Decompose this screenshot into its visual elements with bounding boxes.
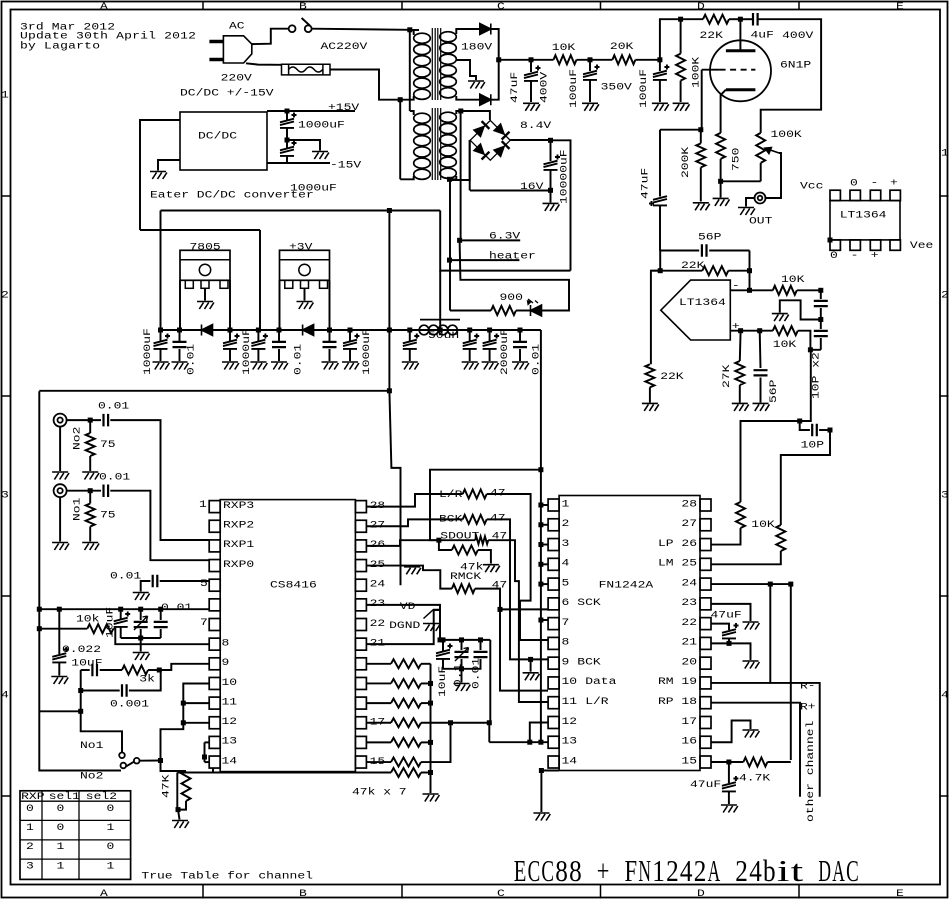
wire HT rail segment 1 xyxy=(499,59,554,61)
wire 75 No1 top xyxy=(89,491,91,504)
svg-text:21: 21 xyxy=(681,636,697,648)
ground 47K xyxy=(172,821,189,829)
label 10K fn xyxy=(751,518,775,530)
CS8416 pin9 number xyxy=(222,656,230,668)
FN1242A pin 2 stub xyxy=(548,519,559,531)
FN1242A pin 11 stub xyxy=(548,697,559,709)
border row label 1 right xyxy=(941,146,949,158)
junction minus input xyxy=(747,288,752,293)
wire FN pin24 xyxy=(711,583,791,585)
wire x389 to pin24 xyxy=(389,391,400,585)
wire y212 horizontal xyxy=(161,210,441,212)
wire trio gnd lead xyxy=(140,638,142,652)
resistor 22K feedback xyxy=(702,266,728,275)
svg-text:0.01: 0.01 xyxy=(98,399,129,411)
svg-text:4uF: 4uF xyxy=(751,29,774,41)
border row label 4 left xyxy=(1,688,9,700)
ground 0.01 a xyxy=(172,362,189,370)
svg-text:12: 12 xyxy=(222,715,238,727)
FN1242A pin4 number xyxy=(562,557,570,569)
svg-text:100K: 100K xyxy=(690,56,702,88)
capacitor 0.01 VD xyxy=(474,652,488,657)
svg-text:-15V: -15V xyxy=(330,158,361,170)
svg-text:F: F xyxy=(625,853,638,888)
junction plus 27K xyxy=(738,328,743,333)
ground FN pin21 xyxy=(743,661,760,669)
svg-text:9: 9 xyxy=(222,656,230,668)
svg-text:24: 24 xyxy=(681,577,697,589)
title date line 1 xyxy=(20,20,115,32)
label 1000uF c xyxy=(360,328,372,375)
junction FN p13 bus xyxy=(538,740,543,745)
svg-text:11: 11 xyxy=(562,695,578,707)
wire CS8416 bottom bus xyxy=(177,772,391,774)
wire no1 node left xyxy=(39,710,80,712)
wire x160 drop xyxy=(160,211,162,331)
ground jack No2 xyxy=(52,472,69,480)
junction FN bus pin4 xyxy=(538,562,543,567)
label 0.01 No2 xyxy=(98,399,129,411)
wire 10P right down xyxy=(781,430,830,525)
truth table box xyxy=(20,791,131,880)
wire fb node to minus input xyxy=(749,251,751,291)
border column label A bottom xyxy=(100,887,109,899)
svg-text:750: 750 xyxy=(730,148,742,171)
junction bus 5 xyxy=(327,328,332,333)
label 10uF VD xyxy=(436,666,448,697)
svg-text:23: 23 xyxy=(370,597,386,609)
svg-text:2: 2 xyxy=(735,853,748,888)
junction bus 8 xyxy=(407,328,412,333)
wire fb left corner down xyxy=(651,271,660,365)
CS8416 pin 20 stub xyxy=(355,658,366,670)
junction fuse-primary xyxy=(398,97,403,102)
FN1242A pin 19 stub xyxy=(700,677,711,689)
label 75 No1 xyxy=(100,508,116,520)
wire 47k row top entry xyxy=(421,663,431,665)
T1 top-left pin xyxy=(410,29,419,31)
label heater xyxy=(489,250,536,262)
truth table header sel1 xyxy=(49,790,80,802)
wire R- row xyxy=(711,683,820,797)
junction HT node2 xyxy=(588,57,593,62)
FN1242A pin10 number xyxy=(562,675,578,687)
border column label E bottom xyxy=(896,887,904,899)
capacitor 0.01 trio xyxy=(154,622,168,627)
diode bus left xyxy=(202,325,213,336)
wire 6.3V to 900 box xyxy=(460,240,569,310)
svg-text:2000uF: 2000uF xyxy=(498,328,510,375)
wire 47uF fn lower lead xyxy=(728,639,730,644)
junction bus corner xyxy=(538,467,543,472)
label 10P x2 xyxy=(810,352,822,399)
wire 1000uF a bottom lead xyxy=(160,349,162,361)
wire 1000uF b top lead xyxy=(229,330,231,341)
svg-text:47: 47 xyxy=(490,486,506,498)
svg-text:B: B xyxy=(299,0,307,12)
wire switch to pins riser xyxy=(161,684,210,761)
label 8.4V xyxy=(520,119,551,131)
wire x2 node down xyxy=(800,350,811,421)
CS8416 pin 14 stub xyxy=(209,756,220,768)
capacitor 4uF 400V xyxy=(753,13,758,26)
wire 22K fb left xyxy=(651,270,702,272)
label 47uF fn upper xyxy=(711,609,742,621)
CS8416 label RXP2 xyxy=(223,519,254,531)
diode D2 180V bottom xyxy=(480,94,491,105)
capacitor 10P x2 lower xyxy=(814,331,828,336)
svg-text:4: 4 xyxy=(562,557,570,569)
label R+ xyxy=(800,700,816,712)
resistor 10k xyxy=(87,624,113,633)
svg-text:10k: 10k xyxy=(76,612,99,624)
LED indicator xyxy=(531,305,542,316)
ground FN pin23 xyxy=(743,622,760,630)
border row label 2 left xyxy=(1,288,9,300)
svg-text:2: 2 xyxy=(562,517,570,529)
wire pin11 xyxy=(183,702,209,704)
FN1242A pin23 number xyxy=(681,596,697,608)
junction no1 node xyxy=(78,709,83,714)
svg-text:0: 0 xyxy=(57,821,65,833)
border column label B top xyxy=(299,0,307,12)
label L/R row xyxy=(439,488,462,500)
capacitor trimmer trio xyxy=(134,622,148,627)
CS8416 pin25 number xyxy=(370,558,386,570)
svg-text:L/R: L/R xyxy=(585,695,608,707)
wire mid to ground xyxy=(287,140,320,151)
T1 secondary bottom lead xyxy=(456,96,480,100)
ground 47uF fn lower xyxy=(721,805,738,813)
wire 10uF-b top xyxy=(58,609,60,654)
CS8416 pin22 number xyxy=(370,617,386,629)
svg-text:RXP: RXP xyxy=(21,790,44,802)
wire FN pin4 xyxy=(541,563,548,565)
junction 6.3V xyxy=(457,238,462,243)
svg-text:Data: Data xyxy=(585,675,616,687)
wire 47k bus xyxy=(430,664,432,793)
FN1242A pin 16 stub xyxy=(700,736,711,748)
wire trio2 bot xyxy=(140,629,142,638)
wire +15V rail xyxy=(267,110,355,112)
wire 0.01 c bottom lead xyxy=(519,349,521,361)
FN1242A pin 12 stub xyxy=(548,716,559,728)
svg-text:400V: 400V xyxy=(782,29,813,41)
wire pin6 entry xyxy=(500,608,548,610)
capacitor 100uF-2 bottom lead xyxy=(659,80,661,102)
ground 2000uF xyxy=(462,362,479,370)
border column label D top xyxy=(697,0,705,12)
label 10uF input xyxy=(71,656,102,668)
wire 0.022-0.001 left xyxy=(80,670,82,711)
potentiometer 100K xyxy=(756,133,765,163)
wire 0.022 left xyxy=(81,669,90,671)
wire 47uF lo top xyxy=(728,762,730,783)
junction bus 1 xyxy=(177,328,182,333)
wire 47k row2 left xyxy=(367,702,392,704)
label 56P feedback xyxy=(698,230,721,242)
junction bus 2 xyxy=(228,328,233,333)
svg-text:Vcc: Vcc xyxy=(800,179,823,191)
label 75 No2 xyxy=(100,438,116,450)
ground 1000uF c xyxy=(342,362,359,370)
label 180V xyxy=(461,40,492,52)
capacitor 10P xyxy=(812,424,817,437)
svg-text:AC220V: AC220V xyxy=(321,40,368,52)
junction 47k row7 xyxy=(428,770,433,775)
capacitor 47uF top lead xyxy=(530,60,532,72)
wire 2000uF b top lead xyxy=(489,330,491,341)
wire cathode node to pot xyxy=(721,180,761,182)
FN1242A pin 27 stub xyxy=(700,519,711,531)
wire VD bus xyxy=(440,639,490,641)
wire No1 to RXP0 xyxy=(110,491,209,561)
label 0.01 a xyxy=(185,344,197,375)
svg-text:other channel: other channel xyxy=(804,721,816,822)
FN1242A pin 22 stub xyxy=(700,618,711,630)
svg-text:D: D xyxy=(697,887,705,899)
svg-text:1: 1 xyxy=(1,88,9,100)
FN1242A pin 15 stub xyxy=(700,756,711,768)
svg-text:t: t xyxy=(791,853,804,888)
bridge diode bottom-left xyxy=(474,144,490,160)
FN1242A pin 23 stub xyxy=(700,598,711,610)
svg-text:16: 16 xyxy=(681,735,697,747)
tube grid lead xyxy=(702,69,720,71)
svg-text:CS8416: CS8416 xyxy=(270,579,317,591)
capacitor 100uF 350V xyxy=(583,65,600,80)
svg-text:0: 0 xyxy=(57,802,65,814)
svg-text:900: 900 xyxy=(500,291,523,303)
ground jack No1 xyxy=(52,543,69,551)
svg-text:R-: R- xyxy=(800,679,816,691)
wire input loop left xyxy=(39,391,121,770)
label 400V top xyxy=(782,29,813,41)
svg-text:47uF: 47uF xyxy=(639,168,651,199)
resistor 10K lm xyxy=(776,525,785,551)
wire wiper to jack xyxy=(766,153,782,198)
svg-text:1000uF: 1000uF xyxy=(360,328,372,375)
label 100K pot xyxy=(771,128,803,140)
FN1242A pin 3 stub xyxy=(548,539,559,551)
svg-text:27K: 27K xyxy=(720,364,732,388)
jack OUT inner xyxy=(758,196,763,201)
FN1242A label Data xyxy=(585,675,616,687)
svg-text:350V: 350V xyxy=(601,81,632,93)
svg-text:4.7K: 4.7K xyxy=(739,772,771,784)
label 10K plus xyxy=(773,338,797,350)
wire 2000uF b bottom lead xyxy=(489,349,491,361)
capacitor 0.01 a xyxy=(173,342,187,347)
resistor 47k row4 xyxy=(391,738,421,747)
ground pin25 xyxy=(404,567,421,575)
FN1242A pin 17 stub xyxy=(700,716,711,728)
svg-text:RM 19: RM 19 xyxy=(658,675,697,687)
label 47K xyxy=(160,774,172,798)
label 27K xyxy=(720,364,732,388)
capacitor 56P feedback xyxy=(702,244,707,257)
ground 0.01 b xyxy=(271,362,288,370)
junction FN bus pin2 xyxy=(538,522,543,527)
T2 primary parallel wire bottom xyxy=(399,100,401,180)
svg-text:2: 2 xyxy=(941,288,949,300)
junction top rail 100K xyxy=(678,17,683,22)
capacitor 10000uF bottom lead xyxy=(550,170,552,190)
resistor 200K xyxy=(696,143,705,167)
wire 75 No2 bot xyxy=(89,456,91,471)
junction No1 xyxy=(88,488,93,493)
svg-text:No1: No1 xyxy=(80,739,103,751)
border row label 2 right xyxy=(941,288,949,300)
capacitor 47uF grid xyxy=(649,196,667,206)
junction FN bus pin1 xyxy=(538,503,543,508)
wire FN supply bus xyxy=(540,470,542,743)
CS8416 pin26 number xyxy=(370,538,386,550)
CS8416 pin15 number xyxy=(370,755,386,767)
FN1242A pin 10 stub xyxy=(548,677,559,689)
junction FN pin14 gnd xyxy=(539,768,544,773)
svg-text:Eater DC/DC converter: Eater DC/DC converter xyxy=(150,188,314,200)
svg-text:28: 28 xyxy=(681,497,697,509)
wire bus right corner down xyxy=(540,330,542,470)
svg-text:C: C xyxy=(497,887,505,899)
svg-text:20: 20 xyxy=(681,656,697,668)
FN1242A pin2 number xyxy=(562,517,570,529)
IC CS8416 body xyxy=(220,500,355,772)
svg-text:C: C xyxy=(528,853,541,888)
CS8416 pin23 number xyxy=(370,597,386,609)
wire plain d top lead xyxy=(329,330,331,341)
junction AC top xyxy=(407,27,412,32)
CS8416 pin 11 stub xyxy=(209,697,220,709)
junction HT node3 xyxy=(657,57,662,62)
truth table row 3 sel1 xyxy=(57,860,65,872)
label 47k xyxy=(460,560,483,572)
label DC/DC xyxy=(198,129,237,141)
ground cap trio xyxy=(133,653,150,661)
label 10uF trio xyxy=(104,607,116,638)
label No2 input xyxy=(71,427,83,450)
svg-text:+: + xyxy=(597,853,610,888)
svg-text:RXP3: RXP3 xyxy=(223,499,254,511)
svg-text:0.001: 0.001 xyxy=(110,698,149,710)
svg-text:15: 15 xyxy=(681,754,697,766)
label SDOUT row xyxy=(440,530,479,542)
label 0.01 VD xyxy=(470,658,482,689)
svg-text:0.1: 0.1 xyxy=(452,664,464,687)
wire VD bus right leg xyxy=(489,640,490,723)
svg-text:10: 10 xyxy=(222,676,238,688)
wire fb left vertical xyxy=(659,251,661,271)
junction x389 y390 xyxy=(387,388,392,393)
wire FN pin12 jog xyxy=(530,722,548,742)
wire top rail to 22K xyxy=(681,18,703,20)
svg-text:sel1: sel1 xyxy=(49,790,80,802)
wire FN pin14 bottom xyxy=(541,770,559,772)
svg-text:200K: 200K xyxy=(679,146,691,178)
ground 56P xyxy=(753,403,770,411)
wire 10P left to fb xyxy=(741,421,800,502)
label other channel xyxy=(804,721,816,822)
label 47 SDOUT xyxy=(492,530,508,542)
resistor 10K plus xyxy=(773,326,798,335)
wire 10K lp bottom xyxy=(711,528,741,545)
wire pin13-14 tie xyxy=(204,742,206,762)
fuse F1 xyxy=(282,64,331,75)
svg-text:21: 21 xyxy=(370,637,386,649)
svg-text:-: - xyxy=(851,249,859,261)
tube anode lead xyxy=(739,19,741,51)
wire FN pin5 xyxy=(541,583,548,585)
junction pin6 bus 120.7 xyxy=(118,607,123,612)
wire 1000uF a top lead xyxy=(160,330,162,341)
label 0.01 c xyxy=(530,344,542,375)
junction plus 56P xyxy=(757,328,762,333)
CS8416 pin7 number xyxy=(200,616,208,628)
wire elec e bottom lead xyxy=(409,349,411,361)
opamp minus sign xyxy=(732,279,740,291)
FN1242A pin 1 stub xyxy=(548,499,559,511)
junction +15V cap xyxy=(285,109,290,114)
FN1242A pin 5 stub xyxy=(548,578,559,590)
svg-text:5: 5 xyxy=(562,577,570,589)
label OUT xyxy=(749,214,772,226)
wire FN pin13 row xyxy=(489,741,548,743)
label CS8416 xyxy=(270,579,317,591)
ground FN pin9 xyxy=(523,673,540,681)
capacitor 0.1 VD xyxy=(455,652,469,657)
svg-text:1: 1 xyxy=(57,840,65,852)
CS8416 pin 27 stub xyxy=(355,520,366,532)
wire y390 long xyxy=(39,390,389,392)
ground DC/DC mid xyxy=(312,152,329,160)
DIP pin label minus top xyxy=(871,176,879,188)
wire 47k sd right xyxy=(478,550,491,564)
resistor 20K HT xyxy=(612,55,635,64)
capacitor 1000uF b xyxy=(223,334,240,349)
truth table header sel2 xyxy=(86,790,117,802)
label 0.001 xyxy=(110,698,149,710)
svg-text:22K: 22K xyxy=(660,370,684,382)
main filter bus xyxy=(161,329,541,331)
wire 100K bottom xyxy=(680,81,682,102)
FN1242A pin 28 stub xyxy=(700,499,711,511)
resistor 10K HT xyxy=(554,55,577,64)
wire 3k to pin9 xyxy=(159,664,209,670)
svg-text:22K: 22K xyxy=(700,29,724,41)
wire 47k row1 left xyxy=(367,682,392,684)
svg-text:RXP1: RXP1 xyxy=(223,538,254,550)
svg-text:i: i xyxy=(777,853,790,888)
svg-text:10K: 10K xyxy=(751,518,775,530)
wire +3V pin mid xyxy=(304,288,306,300)
junction grid node xyxy=(698,127,703,132)
wire 900 to LED xyxy=(516,310,530,312)
ground +3V xyxy=(297,302,314,310)
label 22K feedback xyxy=(681,259,705,271)
svg-text:1: 1 xyxy=(57,860,65,872)
junction FN pin21 cap xyxy=(727,641,732,646)
wire trio2 top xyxy=(140,609,142,620)
wire No1 jack gnd xyxy=(59,497,61,541)
label BCK row xyxy=(439,512,463,524)
svg-text:8: 8 xyxy=(569,853,582,888)
wire 10K minus right xyxy=(797,289,821,291)
resistor 900 xyxy=(491,306,516,315)
ground FN1242A xyxy=(533,813,550,821)
wire 900 left xyxy=(450,310,491,312)
wire minus to 10K xyxy=(750,289,773,291)
